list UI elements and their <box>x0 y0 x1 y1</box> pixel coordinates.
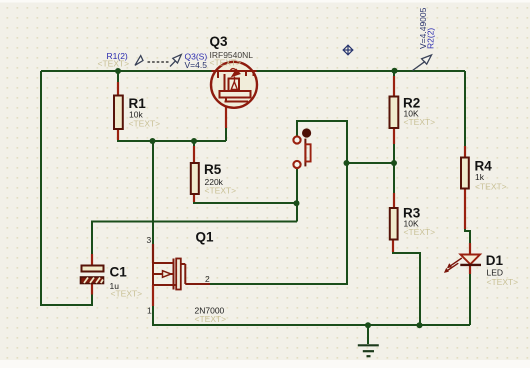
svg-text:<TEXT>: <TEXT> <box>487 277 519 287</box>
svg-text:LED: LED <box>487 268 504 278</box>
svg-text:3: 3 <box>147 235 152 245</box>
svg-text:<TEXT>: <TEXT> <box>404 117 436 127</box>
svg-text:R5: R5 <box>204 162 222 177</box>
svg-text:<TEXT>: <TEXT> <box>111 289 143 299</box>
svg-text:V=4.49005: V=4.49005 <box>418 7 428 49</box>
svg-text:IRF9540NL: IRF9540NL <box>210 50 254 60</box>
svg-text:<TEXT>: <TEXT> <box>195 314 227 324</box>
svg-text:V=4.5: V=4.5 <box>185 60 208 70</box>
svg-text:<TEXT>: <TEXT> <box>129 119 161 129</box>
svg-text:<TEXT>: <TEXT> <box>205 186 237 196</box>
svg-text:D1: D1 <box>486 253 504 268</box>
svg-text:<TEXT>: <TEXT> <box>404 227 436 237</box>
svg-text:1: 1 <box>147 306 152 316</box>
svg-text:C1: C1 <box>110 264 128 279</box>
svg-text:2: 2 <box>205 274 210 284</box>
svg-text:<TEXT>: <TEXT> <box>475 182 507 192</box>
svg-text:R1(2): R1(2) <box>107 51 128 61</box>
svg-text:1k: 1k <box>475 172 485 182</box>
svg-text:Q1: Q1 <box>196 230 215 245</box>
svg-text:Q3: Q3 <box>210 34 229 49</box>
